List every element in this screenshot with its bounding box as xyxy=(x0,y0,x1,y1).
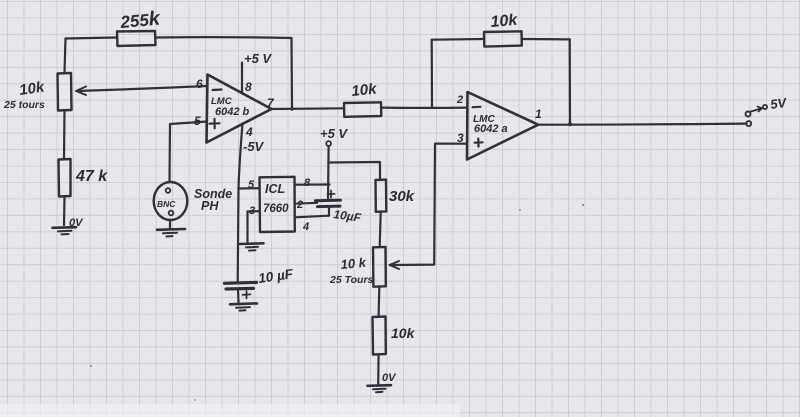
wire U1 output to R3 xyxy=(272,107,345,110)
capacitor C2 10uF plates xyxy=(316,199,341,203)
svg-text:10k: 10k xyxy=(351,80,378,100)
svg-text:4: 4 xyxy=(302,221,309,233)
svg-text:+5 V: +5 V xyxy=(320,126,348,141)
svg-text:5: 5 xyxy=(194,114,201,128)
feedback loop top wire right xyxy=(522,38,570,41)
svg-text:25 tours: 25 tours xyxy=(3,99,45,111)
ground (ICL pin3) xyxy=(240,242,264,245)
svg-text:10k: 10k xyxy=(391,325,416,341)
svg-text:8: 8 xyxy=(304,177,311,189)
capacitor C1 10uF plates (on -5V rail) xyxy=(225,281,257,285)
BNC connector circle xyxy=(154,182,188,220)
wire P2 to R4 xyxy=(378,287,381,317)
+5V node circle xyxy=(326,141,331,146)
svg-text:PH: PH xyxy=(201,199,219,213)
feedback loop right vertical xyxy=(569,39,571,124)
capacitor C1 plus sign xyxy=(243,291,251,298)
wire +5V branch to 30k top xyxy=(328,162,380,180)
feedback loop top wire left xyxy=(432,38,484,41)
svg-text:6042 a: 6042 a xyxy=(474,123,508,135)
svg-text:2: 2 xyxy=(456,94,463,106)
wire BNC to ground xyxy=(169,220,171,229)
wire R4 to ground xyxy=(377,355,380,385)
IC U3 ICL7660 box xyxy=(260,177,295,232)
op-amp U2 triangle xyxy=(467,92,538,160)
junction dot output node xyxy=(568,122,572,126)
junction dot pin7 node xyxy=(290,107,294,111)
wire ICL pin8 xyxy=(295,183,330,185)
svg-text:3: 3 xyxy=(457,131,464,145)
wire top rail right segment xyxy=(156,36,292,39)
speck xyxy=(90,365,92,367)
ground (bottom 0V) xyxy=(368,384,392,387)
resistor R1 255k body xyxy=(117,31,156,46)
svg-text:3: 3 xyxy=(249,205,255,217)
svg-text:2: 2 xyxy=(296,199,303,211)
resistor 47k body xyxy=(59,159,71,197)
svg-text:BNC: BNC xyxy=(157,199,176,209)
wire pot to 47k xyxy=(63,111,66,160)
svg-text:25 Tours: 25 Tours xyxy=(329,274,374,286)
wire 30k to pot P2 xyxy=(380,212,381,247)
svg-text:1: 1 xyxy=(535,107,542,121)
wire ICL pin3 to ground xyxy=(248,211,260,243)
wire +5V vertical down to cap xyxy=(327,146,330,200)
arrowhead at pot P2 wiper xyxy=(390,261,400,269)
svg-text:+5 V: +5 V xyxy=(244,51,272,66)
resistor R3 10k body (mid) xyxy=(344,102,381,117)
op-amp U2 plus sign xyxy=(475,139,483,147)
wire pin5 stub to BNC xyxy=(170,122,208,183)
svg-text:ICL: ICL xyxy=(265,182,285,196)
svg-text:10k: 10k xyxy=(18,79,46,99)
svg-text:30k: 30k xyxy=(389,188,415,205)
svg-text:6: 6 xyxy=(196,77,203,91)
svg-text:7660: 7660 xyxy=(263,203,289,215)
feedback loop left vertical xyxy=(431,40,433,108)
potentiometer P2 10k body xyxy=(373,247,386,287)
svg-text:4: 4 xyxy=(245,125,253,139)
BNC inner bottom pin xyxy=(169,211,174,216)
speck xyxy=(519,209,521,211)
output terminal circle upper xyxy=(746,112,751,117)
resistor R2 10k body (feedback) xyxy=(484,31,522,46)
op-amp U1 minus sign xyxy=(213,88,222,91)
wire U2 output xyxy=(538,124,746,125)
svg-text:10 k: 10 k xyxy=(340,255,367,272)
arrow to 5V xyxy=(751,108,762,111)
wire feedback right vertical to pin7 xyxy=(290,38,293,109)
op-amp U2 minus sign xyxy=(473,106,481,109)
svg-text:0V: 0V xyxy=(69,217,84,229)
wire C2 to pin4 wire xyxy=(328,207,330,216)
potentiometer P1 10k body xyxy=(58,73,72,111)
wire C1 to ground xyxy=(237,289,240,303)
output terminal circle lower xyxy=(746,121,751,126)
svg-text:8: 8 xyxy=(245,80,252,94)
svg-text:5: 5 xyxy=(248,179,255,191)
capacitor C2 plus sign xyxy=(328,191,335,198)
pin4 -5V rail down to capacitor xyxy=(238,124,243,283)
wire ICL pin5 xyxy=(239,187,260,190)
wire pin6 with wiper arrow xyxy=(77,86,207,91)
wire ICL pin4 xyxy=(295,216,329,218)
speck xyxy=(582,204,584,206)
wire U2 pin3 down to pot wiper xyxy=(393,144,468,265)
svg-text:47 k: 47 k xyxy=(75,168,108,185)
ground (C1) xyxy=(230,302,257,305)
small circle 5V xyxy=(763,105,767,109)
wire R3 to U2 pin2 xyxy=(381,106,467,108)
resistor R4 10k body xyxy=(373,317,386,355)
wire top rail left segment xyxy=(66,38,118,39)
speck xyxy=(194,399,196,401)
wire top-left vertical (pot top to top rail) xyxy=(65,39,66,74)
svg-text:6042 b: 6042 b xyxy=(215,106,250,118)
ground (BNC) xyxy=(157,228,185,231)
wire ICL pin2 xyxy=(295,202,317,205)
svg-text:-5V: -5V xyxy=(243,139,265,154)
op-amp U1 plus sign xyxy=(210,119,220,129)
op-amp U1 triangle xyxy=(207,75,272,143)
wire 47k to ground xyxy=(63,197,66,226)
pin8 +5V line xyxy=(241,63,243,94)
ground (left 0V) xyxy=(53,226,77,229)
svg-text:0V: 0V xyxy=(382,372,397,384)
resistor 30k body xyxy=(376,180,387,212)
BNC inner top pin xyxy=(166,188,171,193)
svg-text:10k: 10k xyxy=(490,12,519,31)
